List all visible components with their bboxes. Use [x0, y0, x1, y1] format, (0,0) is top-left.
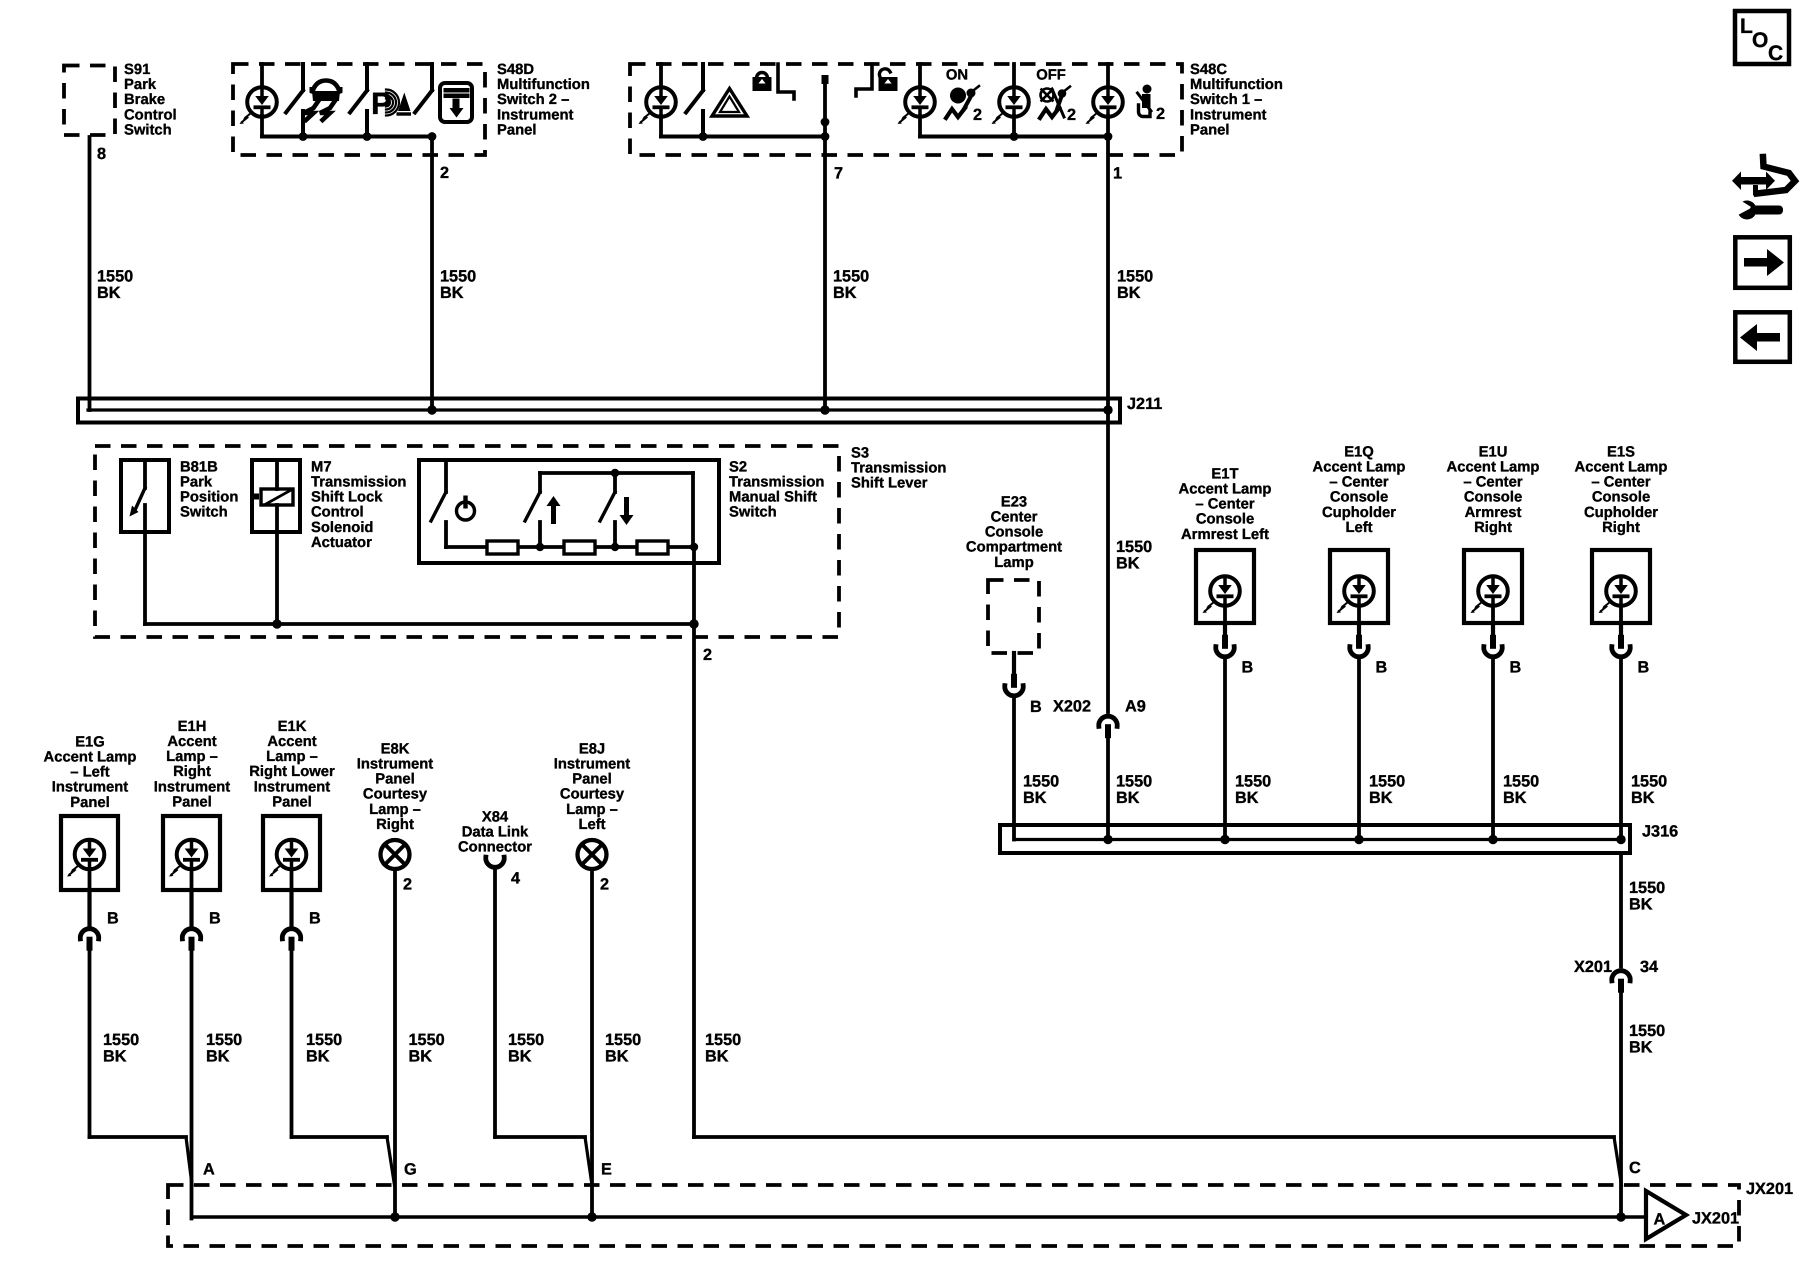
svg-text:X201: X201	[1574, 958, 1612, 976]
svg-text:BK: BK	[306, 1047, 330, 1065]
svg-text:JX201: JX201	[1692, 1209, 1739, 1227]
svg-text:X84: X84	[482, 809, 509, 825]
svg-text:A9: A9	[1125, 697, 1146, 715]
svg-text:E1S: E1S	[1607, 444, 1635, 460]
svg-text:Armrest Left: Armrest Left	[1181, 527, 1269, 543]
svg-text:B: B	[209, 909, 221, 927]
svg-text:Accent Lamp: Accent Lamp	[1179, 482, 1272, 498]
svg-text:Right: Right	[173, 764, 211, 780]
svg-text:Accent: Accent	[267, 734, 316, 750]
svg-text:Instrument: Instrument	[554, 757, 631, 773]
svg-text:Switch: Switch	[180, 505, 228, 521]
svg-text:1550: 1550	[1117, 267, 1153, 285]
svg-text:2: 2	[1067, 106, 1076, 124]
svg-text:Right Lower: Right Lower	[249, 764, 335, 780]
svg-text:A: A	[1654, 1210, 1666, 1228]
svg-text:1550: 1550	[103, 1031, 139, 1049]
svg-text:E23: E23	[1001, 494, 1027, 510]
svg-text:Accent Lamp: Accent Lamp	[44, 750, 137, 766]
svg-text:BK: BK	[1116, 554, 1140, 572]
svg-text:Control: Control	[311, 505, 364, 521]
svg-text:BK: BK	[409, 1047, 433, 1065]
svg-text:Cupholder: Cupholder	[1584, 505, 1658, 521]
svg-text:Switch: Switch	[729, 505, 777, 521]
svg-text:M7: M7	[311, 459, 332, 475]
svg-text:1550: 1550	[705, 1031, 741, 1049]
svg-text:BK: BK	[1023, 789, 1047, 807]
svg-text:X202: X202	[1053, 697, 1091, 715]
svg-text:1550: 1550	[1116, 538, 1152, 556]
svg-text:BK: BK	[1631, 789, 1655, 807]
svg-text:B: B	[1242, 658, 1254, 676]
svg-text:Panel: Panel	[375, 772, 414, 788]
svg-text:1550: 1550	[1629, 879, 1665, 897]
svg-text:Panel: Panel	[70, 795, 109, 811]
svg-text:1550: 1550	[1629, 1022, 1665, 1040]
svg-text:Left: Left	[1345, 520, 1372, 536]
svg-text:4: 4	[511, 869, 520, 887]
svg-text:E1U: E1U	[1479, 444, 1508, 460]
svg-text:BK: BK	[605, 1047, 629, 1065]
svg-text:E1G: E1G	[75, 734, 105, 750]
svg-text:E1H: E1H	[178, 719, 207, 735]
svg-text:1550: 1550	[206, 1031, 242, 1049]
svg-text:– Center: – Center	[1195, 497, 1254, 513]
svg-text:G: G	[404, 1160, 417, 1178]
svg-text:BK: BK	[206, 1047, 230, 1065]
svg-text:Accent Lamp: Accent Lamp	[1447, 460, 1540, 476]
svg-text:Lamp –: Lamp –	[369, 802, 421, 818]
svg-text:OFF: OFF	[1036, 68, 1066, 84]
svg-text:Manual Shift: Manual Shift	[729, 490, 817, 506]
svg-text:Instrument: Instrument	[52, 780, 129, 796]
svg-text:Instrument: Instrument	[497, 107, 574, 123]
svg-text:S48C: S48C	[1190, 62, 1227, 78]
svg-text:O: O	[1752, 29, 1768, 52]
svg-text:Right: Right	[1602, 520, 1640, 536]
svg-text:Solenoid: Solenoid	[311, 520, 373, 536]
svg-text:– Left: – Left	[70, 765, 110, 781]
svg-text:Left: Left	[578, 817, 605, 833]
svg-text:BK: BK	[1369, 789, 1393, 807]
svg-text:Accent: Accent	[167, 734, 216, 750]
svg-text:2: 2	[973, 106, 982, 124]
svg-text:B: B	[107, 909, 119, 927]
svg-text:E: E	[601, 1160, 612, 1178]
svg-text:Brake: Brake	[124, 92, 165, 108]
svg-text:Control: Control	[124, 107, 177, 123]
svg-text:Actuator: Actuator	[311, 535, 372, 551]
svg-text:Courtesy: Courtesy	[363, 787, 428, 803]
svg-text:E8K: E8K	[381, 741, 410, 757]
svg-text:Transmission: Transmission	[311, 475, 406, 491]
svg-text:BK: BK	[1117, 284, 1141, 302]
svg-text:Lamp: Lamp	[994, 555, 1033, 571]
svg-text:J316: J316	[1642, 822, 1678, 840]
svg-text:Connector: Connector	[458, 840, 532, 856]
svg-text:34: 34	[1640, 958, 1658, 976]
svg-text:BK: BK	[103, 1047, 127, 1065]
svg-text:C: C	[1629, 1159, 1641, 1177]
svg-text:Accent Lamp: Accent Lamp	[1575, 460, 1668, 476]
svg-text:Right: Right	[376, 817, 414, 833]
svg-text:1550: 1550	[1235, 772, 1271, 790]
svg-text:BK: BK	[1503, 789, 1527, 807]
svg-text:2: 2	[1156, 105, 1165, 123]
svg-text:JX201: JX201	[1746, 1180, 1793, 1198]
svg-text:Lamp –: Lamp –	[566, 802, 618, 818]
svg-text:Switch 1 –: Switch 1 –	[1190, 92, 1262, 108]
svg-text:Panel: Panel	[497, 122, 536, 138]
svg-text:Panel: Panel	[272, 794, 311, 810]
svg-text:Multifunction: Multifunction	[497, 77, 590, 93]
svg-text:Right: Right	[1474, 520, 1512, 536]
svg-text:BK: BK	[1235, 789, 1259, 807]
svg-text:Instrument: Instrument	[357, 757, 434, 773]
svg-text:Center: Center	[991, 510, 1038, 526]
svg-text:Lamp –: Lamp –	[266, 749, 318, 765]
svg-text:BK: BK	[1629, 1038, 1653, 1056]
svg-text:B: B	[1376, 658, 1388, 676]
svg-text:1550: 1550	[833, 267, 869, 285]
svg-text:Accent Lamp: Accent Lamp	[1313, 460, 1406, 476]
svg-text:Shift Lock: Shift Lock	[311, 490, 383, 506]
svg-text:– Center: – Center	[1463, 475, 1522, 491]
svg-text:Shift Lever: Shift Lever	[851, 476, 928, 492]
svg-text:2: 2	[600, 875, 609, 893]
svg-text:E8J: E8J	[579, 741, 605, 757]
svg-text:1550: 1550	[1503, 772, 1539, 790]
svg-text:1550: 1550	[1023, 772, 1059, 790]
svg-text:1550: 1550	[605, 1031, 641, 1049]
svg-text:8: 8	[97, 145, 106, 163]
svg-text:1550: 1550	[1369, 772, 1405, 790]
svg-text:Instrument: Instrument	[154, 779, 231, 795]
svg-text:Armrest: Armrest	[1465, 505, 1522, 521]
svg-text:Park: Park	[124, 77, 157, 93]
svg-text:S2: S2	[729, 459, 747, 475]
svg-text:1550: 1550	[306, 1031, 342, 1049]
svg-text:Console: Console	[1464, 490, 1522, 506]
svg-text:C: C	[1768, 42, 1783, 65]
svg-text:BK: BK	[705, 1047, 729, 1065]
svg-text:B: B	[309, 909, 321, 927]
svg-text:BK: BK	[1116, 789, 1140, 807]
svg-text:BK: BK	[1629, 895, 1653, 913]
svg-text:BK: BK	[508, 1047, 532, 1065]
svg-text:Transmission: Transmission	[729, 475, 824, 491]
svg-text:Transmission: Transmission	[851, 461, 946, 477]
svg-text:ON: ON	[946, 68, 968, 84]
svg-text:Console: Console	[985, 525, 1043, 541]
svg-text:BK: BK	[97, 284, 121, 302]
svg-text:Compartment: Compartment	[966, 540, 1062, 556]
svg-text:7: 7	[834, 164, 843, 182]
svg-text:Instrument: Instrument	[254, 779, 331, 795]
svg-text:B81B: B81B	[180, 459, 218, 475]
svg-text:Switch 2 –: Switch 2 –	[497, 92, 569, 108]
svg-text:Multifunction: Multifunction	[1190, 77, 1283, 93]
svg-text:A: A	[203, 1160, 215, 1178]
svg-text:E1Q: E1Q	[1344, 444, 1374, 460]
svg-text:1550: 1550	[508, 1031, 544, 1049]
svg-text:BK: BK	[440, 284, 464, 302]
svg-text:2: 2	[403, 875, 412, 893]
svg-text:S91: S91	[124, 62, 150, 78]
svg-text:– Center: – Center	[1329, 475, 1388, 491]
svg-text:Console: Console	[1592, 490, 1650, 506]
svg-text:2: 2	[440, 164, 449, 182]
svg-text:Park: Park	[180, 475, 213, 491]
svg-text:S3: S3	[851, 445, 869, 461]
svg-text:BK: BK	[833, 284, 857, 302]
svg-text:Lamp –: Lamp –	[166, 749, 218, 765]
svg-text:Console: Console	[1330, 490, 1388, 506]
svg-text:– Center: – Center	[1591, 475, 1650, 491]
svg-text:Position: Position	[180, 490, 238, 506]
svg-text:Panel: Panel	[1190, 122, 1229, 138]
svg-text:E1K: E1K	[278, 719, 307, 735]
svg-text:E1T: E1T	[1211, 466, 1238, 482]
svg-text:Switch: Switch	[124, 122, 172, 138]
svg-text:1: 1	[1113, 164, 1122, 182]
svg-text:1550: 1550	[409, 1031, 445, 1049]
svg-text:2: 2	[703, 646, 712, 664]
svg-text:B: B	[1638, 658, 1650, 676]
svg-text:Console: Console	[1196, 512, 1254, 528]
svg-text:S48D: S48D	[497, 62, 534, 78]
svg-text:Courtesy: Courtesy	[560, 787, 625, 803]
svg-text:1550: 1550	[440, 267, 476, 285]
svg-text:Panel: Panel	[172, 794, 211, 810]
svg-text:1550: 1550	[1116, 772, 1152, 790]
svg-text:J211: J211	[1127, 395, 1162, 413]
svg-text:Cupholder: Cupholder	[1322, 505, 1396, 521]
svg-text:Panel: Panel	[572, 772, 611, 788]
svg-text:B: B	[1510, 658, 1522, 676]
svg-text:Data Link: Data Link	[462, 825, 529, 841]
svg-text:Instrument: Instrument	[1190, 107, 1267, 123]
svg-text:B: B	[1030, 698, 1042, 716]
svg-text:1550: 1550	[1631, 772, 1667, 790]
svg-text:1550: 1550	[97, 267, 133, 285]
